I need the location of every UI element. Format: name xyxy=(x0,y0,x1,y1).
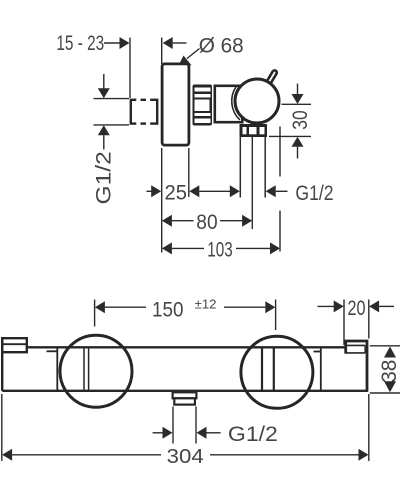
dimension 80 line left segment xyxy=(162,215,172,227)
svg-text:150: 150 xyxy=(152,298,184,322)
dimension 15-23 left arrowhead xyxy=(120,37,130,49)
svg-text:38: 38 xyxy=(377,360,400,383)
dimension 38 bottom extension line xyxy=(370,392,400,394)
dimension 20 left arrow xyxy=(318,305,335,307)
handle lever xyxy=(266,73,275,88)
outlet extension line right xyxy=(195,407,197,444)
extension line knob right lower xyxy=(279,211,281,252)
dimension 15-23 left dimension line xyxy=(104,42,121,44)
left wall escutcheon (front view) xyxy=(2,338,27,352)
dimension 30 lower arrow xyxy=(292,137,304,147)
bar tick left xyxy=(47,350,58,352)
bar division line right xyxy=(320,347,322,391)
svg-text:G1/2: G1/2 xyxy=(92,151,116,204)
dimension 150 left arrow xyxy=(95,301,105,313)
svg-text:25: 25 xyxy=(165,180,188,204)
left handle hub line a xyxy=(83,347,85,391)
dimension 15-23 right tail xyxy=(173,42,187,44)
dimension 150 extension line left xyxy=(94,300,96,327)
dimension 30 top extension line xyxy=(282,103,312,105)
left handle circle xyxy=(60,335,132,407)
mixer bar bottom edge xyxy=(2,390,368,392)
dimension 30 upper arrow xyxy=(297,84,299,95)
extension line at pipe right edge xyxy=(129,38,131,99)
outlet extension line left xyxy=(172,407,174,444)
extension line wall face lower xyxy=(161,148,163,253)
outlet pipe right edge xyxy=(264,137,266,198)
dimension 38 top extension line xyxy=(370,345,400,347)
dimension 20 extension line left xyxy=(343,300,345,346)
outlet G1/2 right arrow xyxy=(197,427,207,439)
vertical G1/2 dimension upper arrow (left side) xyxy=(103,74,105,89)
outlet pipe stub (front view) xyxy=(174,398,195,404)
outlet nut xyxy=(240,124,268,137)
extension line at escutcheon wall face xyxy=(161,38,163,65)
valve body xyxy=(215,86,243,122)
mixer bar top edge xyxy=(27,346,345,348)
outlet G1/2 right arrowhead xyxy=(266,185,276,197)
left outline edge xyxy=(1,338,3,391)
left handle hub line b xyxy=(88,347,90,391)
escutcheon (side view) xyxy=(162,64,189,145)
dimension 20 right arrow xyxy=(369,300,379,312)
svg-text:103: 103 xyxy=(207,238,232,262)
dimension 304 right arrow xyxy=(210,454,359,456)
right wall escutcheon (front view) xyxy=(346,341,367,392)
extension line pipe bottom xyxy=(94,124,130,126)
dimension 15-23 right arrowhead xyxy=(163,37,173,49)
dimension 150 extension line right xyxy=(275,300,277,331)
svg-text:80: 80 xyxy=(196,210,217,234)
dimension 304 left arrow xyxy=(2,449,12,461)
dimension 20 extension line right / 304 right extension xyxy=(368,300,370,339)
right handle hub line a xyxy=(261,347,263,391)
svg-text:G1/2: G1/2 xyxy=(228,422,278,446)
svg-text:±12: ±12 xyxy=(195,297,217,312)
dimension 80 line right segment xyxy=(220,220,242,222)
vertical G1/2 dimension lower arrow (left side) xyxy=(98,125,110,135)
right handle circle xyxy=(241,336,313,408)
outlet pipe left edge xyxy=(239,137,241,198)
dimension 304 extension line right xyxy=(368,394,370,461)
thermostat knob circle xyxy=(235,79,279,123)
dimension 25 right arrow with shared tail xyxy=(189,185,199,197)
svg-text:15 - 23: 15 - 23 xyxy=(56,31,104,55)
bar division line left xyxy=(56,347,58,391)
dimension 25 left arrow xyxy=(147,190,152,192)
dimension 103 line left segment xyxy=(162,242,172,254)
leader arrowhead for Ø 68 xyxy=(179,56,192,66)
dimension 304 extension line left xyxy=(1,394,3,461)
svg-text:30: 30 xyxy=(288,110,312,130)
right escutcheon inner step right edge xyxy=(364,345,366,353)
extension line knob right upper xyxy=(279,127,281,177)
dimension 30 bottom extension line xyxy=(269,135,311,137)
outlet G1/2 left arrow xyxy=(153,432,163,434)
leader line for Ø 68 xyxy=(187,49,200,59)
outlet flange (front view) xyxy=(173,392,197,398)
svg-text:Ø 68: Ø 68 xyxy=(199,34,244,58)
dimension 38 down arrow xyxy=(384,381,396,392)
dimension 38 up arrow xyxy=(384,347,396,358)
svg-text:G1/2: G1/2 xyxy=(295,181,333,205)
right escutcheon inner step top xyxy=(345,344,366,346)
outlet pipe centre extension line xyxy=(251,137,253,229)
S-connector pipe square xyxy=(131,100,157,124)
right handle hub line b xyxy=(273,347,275,391)
dimension 150 right arrow xyxy=(224,306,265,308)
extension line pipe top xyxy=(94,98,130,100)
ribbed ring xyxy=(193,85,213,126)
knob rear flange arc xyxy=(232,87,240,120)
dimension 103 line right segment xyxy=(236,247,270,249)
bar tick right xyxy=(314,351,322,353)
extension line escutcheon front lower xyxy=(188,148,190,197)
right escutcheon inner step bottom xyxy=(345,352,366,354)
outlet G1/2 left arrowhead xyxy=(230,185,240,197)
svg-text:20: 20 xyxy=(348,296,366,320)
svg-text:304: 304 xyxy=(167,446,204,468)
